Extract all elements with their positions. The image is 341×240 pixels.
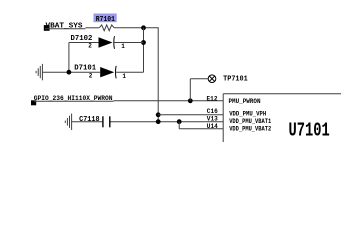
diode D7102 [71,35,126,50]
node junction anodes [67,70,72,75]
wire U14 branch [179,122,223,129]
resistor R7101 [94,14,117,31]
wire ground to D7101 anode [42,71,100,73]
svg-text:PMU_PWRON: PMU_PWRON [229,98,261,105]
wire D7101 cathode [116,71,143,73]
svg-text:VDD_PMU_VBAT1: VDD_PMU_VBAT1 [229,118,271,125]
op-amp U7101 box [223,94,341,142]
wire VBAT_SYS to R7101 [85,27,99,29]
node junction U14 branch [177,119,182,124]
svg-text:2: 2 [88,42,92,49]
test point TP7101 [208,75,248,83]
node junction rail C16 [156,112,161,117]
node junction D7102 cathode [141,40,146,45]
svg-text:VDD_PMU_VPH: VDD_PMU_VPH [229,111,266,118]
capacitor C7118 [79,116,110,128]
diode D7101 [74,65,126,80]
wire D7102 cathode [115,42,144,44]
svg-text:TP7101: TP7101 [223,75,248,83]
wire ground to C7118 [72,121,103,123]
net label VBAT_SYS [44,22,86,30]
svg-text:C16: C16 [207,108,218,115]
wire C7118 to rail V13 [111,121,224,123]
net label GPIO_236_HI110X_PWRON [31,95,114,105]
ground earth capacitor [65,114,71,130]
svg-text:VDD_PMU_VBAT2: VDD_PMU_VBAT2 [229,126,271,133]
wire R7101 to corner [114,27,159,29]
svg-text:U14: U14 [207,123,218,130]
node junction rail V13 [156,119,161,124]
svg-text:U7101: U7101 [289,119,330,141]
svg-text:C7118: C7118 [79,116,100,124]
svg-text:E12: E12 [207,96,218,103]
ground earth left [36,64,42,80]
node junction TP tap [188,98,193,103]
wire diode cathode vertical [143,28,145,72]
wire test point branch [190,79,208,101]
svg-text:V13: V13 [207,116,218,123]
svg-text:1: 1 [121,43,125,50]
wire main vertical rail [157,28,159,122]
wire C16 branch [158,114,223,116]
node junction top [141,25,146,30]
svg-text:D7101: D7101 [74,65,96,73]
svg-text:R7101: R7101 [96,16,116,24]
svg-text:1: 1 [122,73,126,80]
svg-text:2: 2 [89,72,93,79]
wire GPIO to pin E12 [114,100,224,102]
wire D7102 anode [69,43,99,73]
